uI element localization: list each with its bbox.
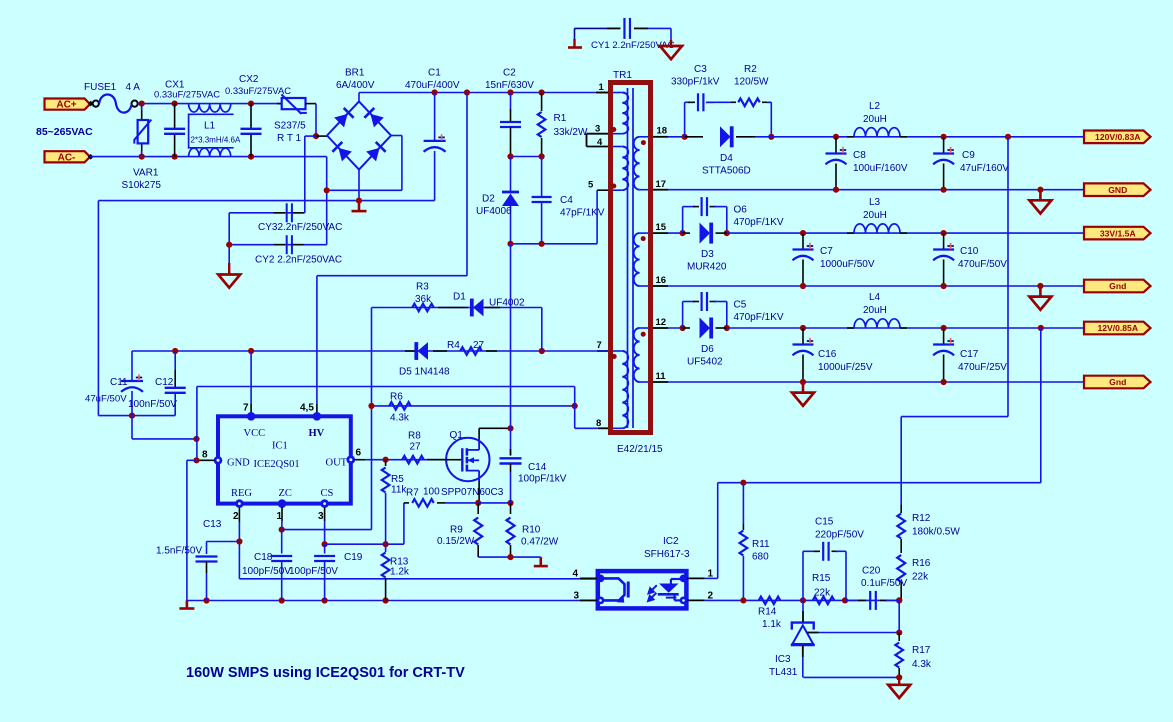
wire VCC branch down: [250, 351, 252, 404]
svg-text:33k/2W: 33k/2W: [554, 127, 588, 138]
svg-text:GND: GND: [227, 458, 250, 469]
svg-text:S237/5: S237/5: [274, 121, 306, 132]
capacitor CY1: [607, 27, 621, 29]
junction ZC C18: [279, 527, 285, 533]
junction VAR1 bottom: [139, 154, 145, 160]
junction snubber mid left: [507, 153, 513, 159]
wire 12V rail: [727, 327, 1084, 329]
transistor IC3 TL431: [802, 600, 804, 611]
svg-text:D2: D2: [482, 194, 495, 205]
wire DC+ rail pin1 stub: [600, 92, 608, 94]
transformer TR1 primary winding 4-5: [613, 146, 622, 148]
svg-text:160W SMPS using ICE2QS01 for C: 160W SMPS using ICE2QS01 for CRT-TV: [186, 665, 465, 681]
wire GND pin stub: [197, 459, 215, 461]
capacitor C1 470uF/400V: [434, 93, 436, 141]
wire TL431 anode: [803, 676, 899, 678]
junction drain clamp: [507, 425, 513, 431]
junction R5 top: [383, 457, 389, 463]
wire primary ground rail: [187, 600, 580, 602]
junction CX2 top: [248, 101, 254, 107]
junction C17 bottom: [941, 379, 947, 385]
polarity dot secondary 2: [641, 236, 646, 241]
junction gnd2 earth: [1037, 283, 1043, 289]
junction C11 bottom: [129, 413, 135, 419]
wire D1 down to pin7 line: [541, 308, 543, 352]
junction C7 bottom: [800, 283, 806, 289]
svg-text:R10: R10: [522, 525, 541, 536]
svg-text:470uF/25V: 470uF/25V: [958, 362, 1007, 373]
junction C10 bottom: [941, 283, 947, 289]
wire pin8 horizontal: [575, 427, 598, 429]
svg-text:22k: 22k: [912, 572, 929, 583]
svg-text:R16: R16: [912, 558, 931, 569]
capacitor C2 15nF/630V: [510, 93, 512, 110]
svg-text:E42/21/15: E42/21/15: [617, 444, 663, 455]
wire pin8 vertical: [574, 387, 576, 429]
diode D3 MUR420: [683, 232, 690, 234]
svg-text:6: 6: [356, 448, 362, 459]
svg-text:C16: C16: [818, 349, 837, 360]
capacitor C15 220pF/50V: [802, 551, 804, 600]
wire 120V sense to R12: [900, 417, 902, 505]
wire ZC to vertical: [282, 529, 372, 531]
wire 12V sense to IC2: [717, 483, 719, 579]
wire feedback net: [705, 599, 900, 601]
svg-text:20uH: 20uH: [863, 305, 887, 316]
wire BR1 top to DC+ rail: [358, 93, 360, 102]
wire DC+ rail: [359, 92, 600, 94]
capacitor C13 1.5nF/50V: [206, 542, 208, 555]
wire ZC vertical: [371, 308, 373, 530]
svg-text:4.3k: 4.3k: [390, 413, 410, 424]
wire AC- down segment: [326, 157, 328, 245]
svg-text:20uH: 20uH: [863, 210, 887, 221]
wire 120V sense down: [1007, 137, 1009, 417]
wire aux supply rail: [132, 350, 608, 352]
junction R15 right: [842, 597, 848, 603]
polarity dot primary 1: [611, 127, 616, 132]
ground earth CY1 right: [670, 28, 672, 45]
svg-text:27: 27: [473, 340, 485, 351]
svg-text:C1: C1: [428, 68, 441, 79]
light arrows IC2: [648, 585, 657, 601]
junction R17 bottom: [896, 674, 902, 680]
wire BR1 right to AC- node: [327, 189, 402, 191]
capacitor C5 470pF/1KV: [682, 302, 684, 329]
svg-text:180k/0.5W: 180k/0.5W: [912, 527, 960, 538]
wire R6 net: [372, 405, 575, 407]
resistor R17 4.3k: [898, 633, 900, 641]
svg-text:O6: O6: [734, 205, 748, 216]
svg-text:BR1: BR1: [345, 68, 365, 79]
junction C18 bottom: [279, 597, 285, 603]
svg-text:120/5W: 120/5W: [734, 77, 769, 88]
capacitor C9 47uF/160V: [943, 137, 945, 153]
capacitor C12 100nF/50V: [174, 351, 176, 370]
ground tick source sense: [539, 557, 542, 566]
svg-text:D1: D1: [453, 292, 466, 303]
wire CS net: [325, 543, 404, 545]
wire CY3 right up: [304, 136, 306, 213]
svg-text:120V/0.83A: 120V/0.83A: [1095, 132, 1140, 142]
junction HV branch: [464, 89, 470, 95]
ground tick DC- reference: [358, 201, 361, 212]
svg-text:IC1: IC1: [272, 441, 288, 452]
svg-text:C11: C11: [110, 377, 128, 388]
fuse FUSE1: [93, 101, 99, 107]
wire source net: [478, 502, 510, 504]
svg-text:CY2 2.2nF/250VAC: CY2 2.2nF/250VAC: [255, 255, 342, 266]
junction R1 top: [539, 89, 545, 95]
capacitor CX1: [174, 104, 176, 129]
polarity dot secondary 3: [641, 332, 646, 337]
wire HV horizontal: [317, 275, 467, 277]
pin 4 IC2: [580, 577, 598, 579]
junction CY2 left: [226, 242, 232, 248]
svg-text:100pF/50V: 100pF/50V: [242, 566, 291, 577]
svg-text:C8: C8: [853, 150, 866, 161]
resistor R7 100: [404, 502, 409, 504]
resistor R2 120/5W: [731, 101, 736, 103]
junction R16 bottom: [896, 597, 902, 603]
svg-text:27: 27: [410, 442, 422, 453]
wire REG to IC2 pin4: [239, 578, 579, 580]
inductor L1 common-mode choke: [189, 114, 234, 148]
svg-text:FUSE1: FUSE1: [84, 82, 117, 93]
capacitor CX2: [250, 104, 252, 129]
svg-text:TR1: TR1: [613, 70, 632, 81]
svg-text:D4: D4: [720, 153, 733, 164]
wire BR1 right down: [401, 136, 403, 191]
svg-text:680: 680: [752, 552, 769, 563]
svg-text:C9: C9: [962, 150, 975, 161]
svg-text:47pF/1KV: 47pF/1KV: [560, 208, 605, 219]
svg-text:L3: L3: [869, 197, 881, 208]
wire R9 R10 common: [478, 556, 541, 558]
svg-text:OUT: OUT: [326, 458, 348, 469]
svg-text:2: 2: [233, 511, 239, 522]
svg-text:VAR1: VAR1: [133, 168, 159, 179]
svg-text:IC3: IC3: [775, 654, 791, 665]
pin 8 GND: [214, 456, 223, 465]
resistor R9 0.15/2W: [477, 503, 479, 514]
svg-text:IC2: IC2: [663, 536, 679, 547]
wire CS up to R7: [403, 503, 405, 544]
resistor R13 1.2k: [385, 544, 387, 552]
svg-text:3: 3: [595, 124, 600, 135]
polarity dot secondary 1: [641, 140, 646, 145]
svg-text:L1: L1: [204, 121, 216, 132]
wire snubber bottom: [511, 243, 598, 245]
wire AC- rail: [90, 156, 327, 158]
capacitor C8 100uF/160V: [835, 137, 837, 153]
ground earth secondary 3: [802, 382, 805, 393]
svg-text:R6: R6: [390, 392, 403, 403]
wire HV vertical from rail: [466, 93, 468, 276]
svg-text:6A/400V: 6A/400V: [336, 80, 375, 91]
varistor VAR1: [141, 107, 143, 120]
capacitor C3 330pF/1kV: [684, 102, 686, 137]
resistor R8 27: [402, 456, 424, 464]
wire RT1 node to BR1 left: [316, 135, 327, 137]
svg-text:85~265VAC: 85~265VAC: [36, 126, 93, 138]
node AC+ input tag: [45, 99, 91, 110]
ground tick primary rail: [186, 601, 189, 609]
svg-text:ZC: ZC: [279, 488, 292, 499]
capacitor O6 470pF/1KV: [682, 207, 684, 234]
transformer TR1 secondary winding 15-16: [640, 232, 648, 234]
svg-text:UF4006: UF4006: [476, 206, 512, 217]
svg-text:22k: 22k: [814, 588, 831, 599]
capacitor C11 47uF/50V: [131, 351, 133, 381]
capacitor C7 1000uF/50V: [802, 233, 804, 248]
capacitor C20 0.1uF/50V: [845, 599, 861, 601]
wire CY2 net: [229, 244, 327, 246]
capacitor C10 470uF/50V: [943, 233, 945, 248]
svg-text:GND: GND: [1108, 185, 1127, 195]
svg-text:REG: REG: [231, 488, 252, 499]
svg-text:100pF/1kV: 100pF/1kV: [518, 474, 567, 485]
node 12V output tag: [1084, 322, 1151, 335]
diode IC2 LED: [671, 578, 684, 580]
svg-text:12V/0.85A: 12V/0.85A: [1097, 323, 1138, 333]
svg-text:R1: R1: [554, 113, 567, 124]
junction VAR1 top: [139, 101, 145, 107]
node Gnd output tag 3: [1084, 376, 1151, 389]
resistor R6 4.3k: [389, 402, 411, 410]
svg-text:R8: R8: [408, 431, 421, 442]
junction RT1 bridge node: [313, 133, 319, 139]
svg-text:1: 1: [599, 82, 605, 93]
svg-text:5: 5: [588, 180, 594, 191]
wire OUT net: [365, 459, 446, 461]
svg-text:0.15/2W: 0.15/2W: [437, 536, 475, 547]
op-amp IC1 ICE2QS01 controller: [218, 416, 351, 503]
svg-text:R T 1: R T 1: [277, 133, 302, 144]
junction VCC branch: [248, 348, 254, 354]
wire R3 D1 net: [372, 307, 542, 309]
pin 2 IC2: [686, 599, 704, 601]
svg-text:1.5nF/50V: 1.5nF/50V: [156, 546, 202, 557]
svg-text:Q1: Q1: [450, 430, 464, 441]
svg-text:1000uF/50V: 1000uF/50V: [820, 259, 875, 270]
wire DC- bus left drop: [97, 201, 99, 416]
wire CY3 net: [229, 212, 305, 214]
junction C8 bottom: [833, 187, 839, 193]
svg-text:1000uF/25V: 1000uF/25V: [818, 362, 873, 373]
pin 3 CS: [320, 499, 329, 508]
svg-text:15: 15: [656, 222, 667, 233]
svg-text:R2: R2: [744, 64, 757, 75]
transistor Q1 SPP07N60C3: [446, 438, 489, 481]
svg-text:330pF/1kV: 330pF/1kV: [671, 77, 720, 88]
junction R11 top: [740, 480, 746, 486]
transformer TR1 core box: [611, 83, 651, 433]
svg-text:R4: R4: [447, 340, 460, 351]
wire BR1 bottom to DC- bus: [358, 170, 360, 201]
pin 16 stub: [653, 285, 668, 287]
svg-text:0.1uF/50V: 0.1uF/50V: [861, 578, 907, 589]
junction C9 top: [941, 134, 947, 140]
svg-text:12: 12: [656, 317, 667, 328]
junction R6 left: [368, 403, 374, 409]
resistor R10 0.47/2W: [510, 503, 512, 514]
svg-text:4,5: 4,5: [300, 403, 314, 414]
svg-text:UF5402: UF5402: [687, 357, 723, 368]
svg-text:STTA506D: STTA506D: [702, 166, 751, 177]
wire pin5 stub: [597, 189, 608, 191]
op-amp IC2 SFH617-3 optocoupler: [598, 571, 687, 608]
svg-text:4: 4: [573, 569, 579, 580]
junction C8 top: [833, 134, 839, 140]
svg-text:R11: R11: [752, 539, 770, 550]
junction R13 top: [383, 541, 389, 547]
svg-text:CY32.2nF/250VAC: CY32.2nF/250VAC: [258, 222, 342, 233]
wire REG stub: [238, 507, 240, 522]
wire TL431 ref lead: [808, 632, 819, 634]
node GND output tag: [1084, 183, 1151, 196]
wire 120V rail: [755, 136, 1084, 138]
pin 8 stub: [598, 427, 608, 429]
junction C7 top: [800, 230, 806, 236]
junction snubber3 right: [724, 325, 730, 331]
pin 15 stub: [653, 232, 668, 234]
resistor R14 1.1k: [759, 597, 781, 605]
svg-text:470pF/1KV: 470pF/1KV: [734, 217, 784, 228]
wire aux return: [197, 386, 575, 388]
svg-text:18: 18: [657, 126, 668, 137]
junction R17 top: [896, 630, 902, 636]
polarity dot auxiliary: [612, 354, 617, 359]
inductor L3 20uH: [847, 232, 854, 234]
node AC- input tag: [45, 151, 91, 162]
junction C14 bottom: [507, 500, 513, 506]
wire IC2 pin3 stub: [580, 600, 598, 602]
svg-text:AC-: AC-: [58, 152, 76, 163]
ground earth symbol EMI filter: [228, 263, 230, 275]
resistor R3 36k: [412, 304, 434, 312]
svg-text:0.47/2W: 0.47/2W: [521, 537, 559, 548]
junction CX2 bottom: [248, 154, 254, 160]
capacitor C18 100pF/50V: [281, 530, 283, 554]
pin 3 stub: [587, 133, 609, 135]
svg-text:L2: L2: [869, 101, 881, 112]
svg-text:C12: C12: [155, 377, 174, 388]
svg-text:220pF/50V: 220pF/50V: [815, 530, 864, 541]
wire pin15 net: [668, 232, 685, 234]
svg-text:C17: C17: [960, 349, 979, 360]
svg-text:1.1k: 1.1k: [762, 619, 782, 630]
junction C9 bottom: [941, 187, 947, 193]
svg-text:R9: R9: [450, 525, 463, 536]
wire aux return left down: [196, 387, 198, 461]
capacitor C19 100pF/50V: [324, 544, 326, 553]
ground earth feedback: [898, 677, 900, 684]
ground earth secondary 2: [1039, 286, 1042, 297]
svg-text:47uF/50V: 47uF/50V: [85, 394, 127, 405]
wire gnd3 rail: [668, 381, 1084, 383]
wire gnd1 rail: [668, 189, 1084, 191]
svg-text:R14: R14: [758, 607, 777, 618]
wire C11 ground down: [131, 416, 133, 439]
wire earth stem: [228, 213, 230, 264]
pin 12 stub: [653, 327, 668, 329]
wire 12V sense down: [1040, 328, 1042, 483]
svg-text:R17: R17: [912, 645, 931, 656]
svg-text:C20: C20: [862, 566, 881, 577]
svg-text:11: 11: [656, 371, 667, 382]
ground earth secondary 1: [1039, 190, 1042, 201]
svg-text:R7: R7: [406, 488, 419, 499]
wire BR1 right corner lead: [391, 135, 402, 137]
pin 1 IC2: [686, 577, 704, 579]
junction R10 bottom: [507, 554, 513, 560]
svg-text:47uF/160V: 47uF/160V: [960, 163, 1009, 174]
svg-text:HV: HV: [309, 428, 325, 439]
junction GND pin: [193, 457, 199, 463]
transformer TR1 auxiliary winding 7-8: [613, 350, 622, 352]
wire gnd2 rail: [668, 285, 1084, 287]
junction D1 joins pin7 line: [539, 348, 545, 354]
node 120V output tag: [1084, 131, 1151, 144]
resistor R11 680: [742, 483, 744, 524]
svg-text:C4: C4: [560, 195, 573, 206]
svg-text:D3: D3: [701, 249, 714, 260]
svg-text:D5 1N4148: D5 1N4148: [399, 367, 450, 378]
wire 12V sense left: [718, 482, 1041, 484]
wire REG down: [238, 522, 240, 579]
wire R7 to source: [446, 502, 478, 504]
junction C12 top: [172, 348, 178, 354]
svg-text:100: 100: [423, 487, 440, 498]
svg-text:R12: R12: [912, 513, 931, 524]
junction C2 top: [507, 89, 513, 95]
wire Q1 drain up: [478, 428, 480, 438]
pin 17 stub: [653, 189, 668, 191]
pin 6 OUT: [347, 455, 356, 464]
svg-text:Gnd: Gnd: [1109, 281, 1126, 291]
wire VCC pin stub: [250, 404, 252, 413]
svg-text:7: 7: [597, 340, 602, 351]
junction C16 top: [800, 325, 806, 331]
wire snubber1 right: [770, 102, 772, 137]
wire snubber3 right: [726, 302, 728, 329]
svg-text:470pF/1KV: 470pF/1KV: [734, 312, 784, 323]
pin 11 stub: [653, 381, 668, 383]
wire pin12 net: [668, 327, 685, 329]
svg-text:20uH: 20uH: [863, 114, 887, 125]
junction CX1 top: [172, 101, 178, 107]
capacitor CY2: [274, 244, 285, 246]
svg-text:CS: CS: [321, 488, 334, 499]
svg-text:R3: R3: [416, 282, 429, 293]
transformer TR1 core lines: [627, 88, 629, 428]
junction 12V sense: [1038, 325, 1044, 331]
svg-text:0.33uF/275VAC: 0.33uF/275VAC: [225, 85, 291, 96]
svg-text:SFH617-3: SFH617-3: [644, 549, 690, 560]
wire CY1 left: [575, 27, 621, 29]
junction snubber mid right: [539, 153, 545, 159]
junction snubber2 left: [680, 230, 686, 236]
svg-text:1: 1: [708, 569, 714, 580]
resistor R12 180k/0.5W: [900, 505, 902, 513]
svg-text:470uF/50V: 470uF/50V: [958, 259, 1007, 270]
capacitor C17 470uF/25V: [943, 328, 945, 344]
svg-text:MUR420: MUR420: [687, 262, 727, 273]
svg-text:L4: L4: [869, 292, 881, 303]
diode D6 UF5402: [683, 327, 690, 329]
node 33V output tag: [1084, 227, 1151, 240]
